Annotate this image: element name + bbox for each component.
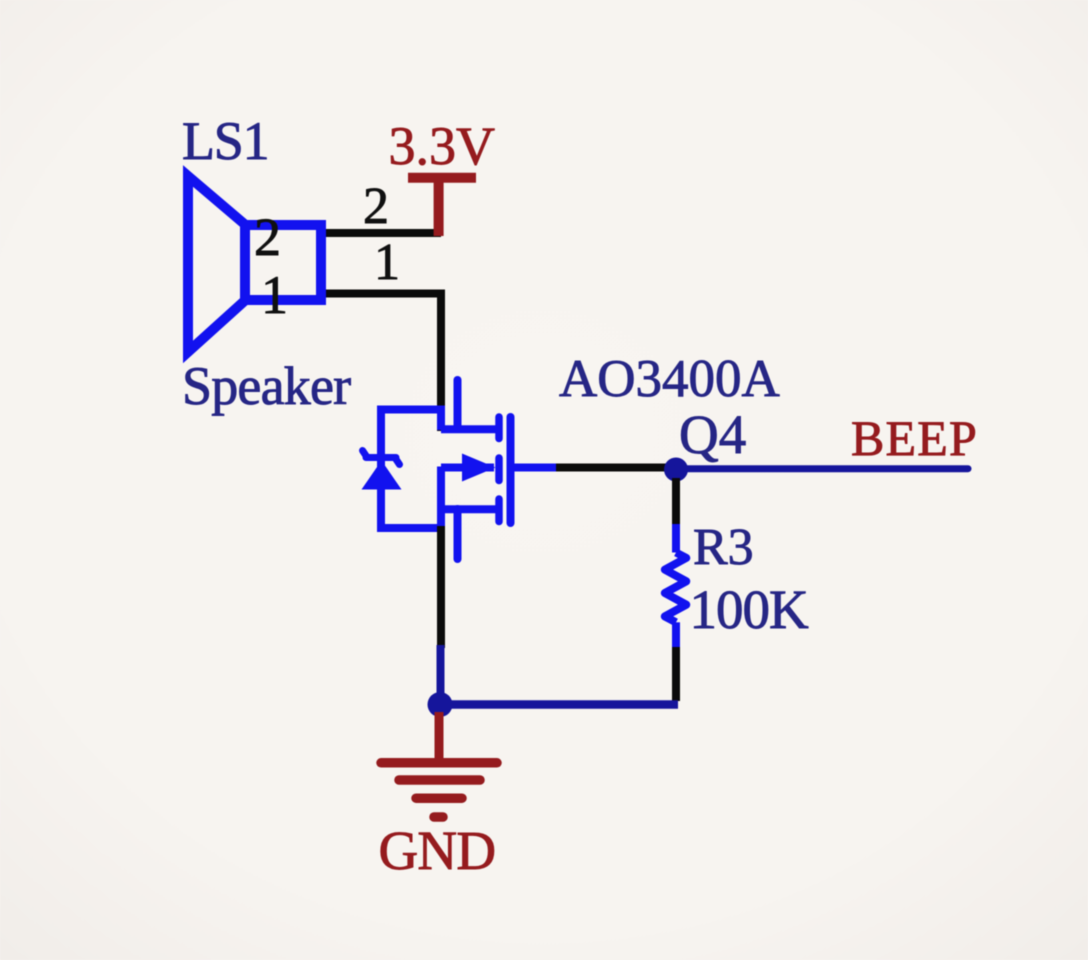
- transistor channel segment bottom: [495, 499, 503, 522]
- zener cathode bar: [366, 454, 396, 461]
- svg-text:GND: GND: [379, 820, 496, 881]
- transistor source line: [441, 505, 496, 513]
- ground bar 3: [416, 793, 462, 803]
- svg-text:Q4: Q4: [679, 404, 746, 465]
- svg-text:2: 2: [363, 178, 389, 235]
- ground bar 2: [399, 775, 480, 785]
- wire pin2 to 3.3V: [326, 229, 441, 237]
- svg-text:Speaker: Speaker: [182, 356, 351, 416]
- junction dot at gate node: [664, 458, 688, 482]
- transistor body arrow: [462, 454, 496, 482]
- zener cathode left tab: [363, 451, 367, 457]
- transistor body line: [441, 464, 494, 472]
- ground bar 1: [381, 758, 497, 768]
- svg-text:2: 2: [254, 207, 281, 267]
- transistor gate bar: [507, 417, 515, 523]
- ground bar 4: [434, 812, 443, 822]
- transistor source pin stub: [454, 509, 462, 559]
- svg-text:3.3V: 3.3V: [389, 116, 496, 176]
- transistor channel segment middle: [495, 458, 503, 481]
- svg-text:R3: R3: [693, 519, 754, 576]
- svg-text:BEEP: BEEP: [851, 410, 978, 466]
- speaker LS1 body box: [245, 225, 321, 300]
- resistor R3 bottom lead: [672, 622, 680, 649]
- wire pin1 to drain: [326, 294, 441, 432]
- transistor gate pin: [511, 464, 559, 472]
- svg-text:LS1: LS1: [182, 111, 268, 171]
- power port 3.3V bar: [408, 173, 476, 183]
- transistor Q4 body-diode loop: [381, 410, 441, 529]
- net wire BEEP: [676, 465, 968, 472]
- wire R3 bottom to net: [672, 647, 680, 701]
- junction dot at ground node: [428, 692, 453, 717]
- ground stem: [435, 712, 444, 762]
- transistor drain pin stub: [454, 380, 462, 429]
- svg-text:1: 1: [261, 265, 288, 325]
- wire gate to junction: [556, 464, 672, 472]
- resistor R3 top lead: [672, 524, 680, 553]
- transistor channel segment top: [495, 417, 503, 439]
- zener body diode triangle: [362, 461, 402, 490]
- resistor R3 zigzag: [665, 553, 687, 623]
- wire junction to R3 top: [672, 478, 680, 527]
- svg-text:1: 1: [374, 234, 400, 291]
- transistor drain line: [441, 425, 496, 433]
- power port 3.3V stem: [434, 178, 444, 236]
- svg-text:100K: 100K: [690, 579, 810, 640]
- wire source to ground junction (navy part): [437, 645, 445, 700]
- speaker LS1 horn: [188, 176, 245, 352]
- wire source to ground junction (black part): [437, 526, 445, 648]
- zener cathode right tab: [396, 459, 400, 465]
- net wire ground junction to R3 bottom: [440, 700, 678, 709]
- svg-text:AO3400A: AO3400A: [559, 350, 780, 408]
